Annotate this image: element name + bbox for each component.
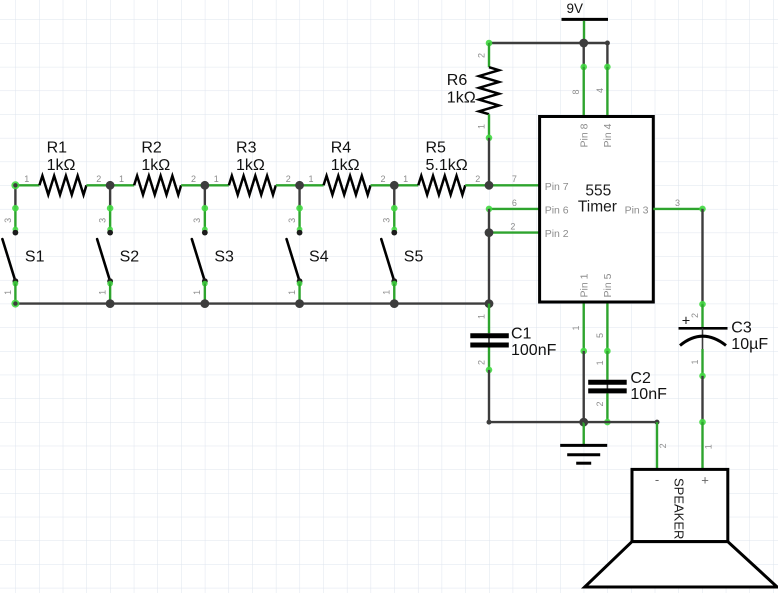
junction pin2 node [485, 228, 494, 237]
svg-text:R4: R4 [331, 140, 352, 157]
svg-text:Timer: Timer [578, 198, 617, 215]
wire S2 to bus [109, 284, 111, 304]
switch S4 lever [287, 239, 299, 279]
svg-text:2: 2 [658, 443, 668, 448]
ground symbol line 2 [567, 453, 600, 456]
svg-text:1: 1 [119, 174, 124, 184]
terminal glow S3 top [202, 227, 208, 233]
bendpoint S3 wire [202, 205, 209, 212]
svg-text:7: 7 [512, 174, 517, 184]
junction bus [390, 299, 399, 308]
capacitor C2 plate 1 [588, 380, 627, 385]
wire pin1 down [583, 302, 585, 351]
resistor R5 left lead [394, 184, 418, 186]
wire node to pin 7 [489, 184, 540, 186]
svg-text:5.1kΩ: 5.1kΩ [425, 157, 467, 174]
bendpoint pin5 [604, 348, 611, 355]
svg-text:1: 1 [308, 174, 313, 184]
terminal glow S1 top [13, 227, 19, 233]
wire S4 to bus [298, 284, 300, 304]
svg-text:1kΩ: 1kΩ [331, 157, 360, 174]
endpoint main row left [13, 183, 17, 187]
bendpoint C1 bottom [486, 367, 493, 374]
resistor R2 left lead [110, 184, 134, 186]
svg-text:S2: S2 [120, 248, 140, 265]
endpoint glow bus left [11, 300, 19, 308]
wire C2 to ground rail [606, 393, 608, 422]
bendpoint pin4 rail [605, 41, 610, 46]
svg-text:Pin 3: Pin 3 [625, 205, 649, 217]
resistor R4 right lead [371, 184, 395, 186]
svg-text:R3: R3 [236, 140, 257, 157]
switch S3 lever [192, 239, 204, 279]
wire to S2 top terminal [109, 208, 111, 229]
svg-text:R6: R6 [447, 72, 468, 89]
svg-text:Pin 1: Pin 1 [578, 273, 590, 297]
svg-text:Pin 4: Pin 4 [602, 123, 614, 147]
wire pin6 bend down to bus [488, 209, 490, 304]
svg-text:R5: R5 [425, 140, 446, 157]
resistor R3 left lead [205, 184, 229, 186]
svg-text:555: 555 [585, 183, 611, 200]
wire C3 to speaker bend [701, 376, 703, 422]
svg-text:1: 1 [690, 359, 700, 364]
capacitor C2 lead [606, 381, 608, 394]
op-amp U1 555 timer body [540, 117, 654, 303]
terminal glow S1 bottom [13, 281, 19, 287]
bendpoint pin4 [604, 64, 611, 71]
wire to speaker plus [701, 422, 703, 469]
wire pin6 [489, 208, 540, 210]
capacitor C1 lead [488, 334, 490, 347]
capacitor C2 plate 2 [588, 388, 627, 393]
terminal glow S5 bottom [391, 281, 397, 287]
wire main row down to S1 [14, 185, 16, 207]
switch S5 bottom terminal [391, 278, 397, 284]
wire pin4 bend to IC [606, 67, 608, 117]
capacitor C3 plate [679, 327, 728, 330]
svg-text:Pin 6: Pin 6 [545, 205, 569, 217]
svg-text:10µF: 10µF [731, 336, 768, 353]
terminal glow S2 top [107, 227, 113, 233]
svg-text:4: 4 [595, 88, 605, 93]
svg-text:1: 1 [704, 444, 714, 449]
svg-text:3: 3 [3, 218, 13, 223]
svg-text:2: 2 [191, 174, 196, 184]
terminal glow S3 bottom [202, 281, 208, 287]
svg-text:2: 2 [475, 174, 480, 184]
junction main row [106, 181, 115, 190]
terminal glow S4 top [297, 227, 303, 233]
junction main row [295, 181, 304, 190]
junction main row [200, 181, 209, 190]
wire S1 to bus [14, 284, 16, 304]
ground symbol line 3 [576, 462, 591, 465]
svg-text:1kΩ: 1kΩ [447, 89, 476, 106]
speaker body [632, 469, 728, 541]
svg-text:2: 2 [595, 401, 605, 406]
speaker cone [585, 542, 778, 587]
capacitor C1 plate 2 [470, 343, 509, 348]
junction 9V rail [579, 39, 588, 48]
bendpoint R6 bottom [486, 135, 493, 142]
wire pin3 bend down [701, 209, 703, 304]
terminal glow S2 bottom [107, 281, 113, 287]
switch S1 bottom terminal [13, 278, 19, 284]
wire main row down to S2 [109, 185, 111, 207]
junction main row [390, 181, 399, 190]
svg-text:C2: C2 [630, 370, 651, 387]
wire C3 bottom [701, 349, 703, 376]
svg-text:3: 3 [192, 218, 202, 223]
svg-text:Pin 2: Pin 2 [545, 228, 569, 240]
switch S4 top terminal [297, 230, 303, 236]
svg-text:Pin 7: Pin 7 [545, 181, 569, 193]
svg-text:8: 8 [571, 89, 581, 94]
wire main row down to S4 [298, 185, 300, 207]
bendpoint S4 wire [296, 205, 303, 212]
svg-text:9V: 9V [567, 1, 584, 16]
resistor R5 right lead [465, 184, 489, 186]
terminal glow S5 top [391, 227, 397, 233]
wire S3 to bus [204, 284, 206, 304]
bendpoint C1 ground corner [487, 420, 492, 425]
wire S5 to bus [393, 284, 395, 304]
wire rail to pin4 bend [606, 43, 608, 67]
resistor R1 right lead [86, 184, 110, 186]
svg-text:6: 6 [512, 198, 517, 208]
wire C1 down [488, 348, 490, 370]
wire pin5 down [606, 302, 608, 351]
svg-text:1: 1 [287, 290, 297, 295]
svg-text:1: 1 [382, 290, 392, 295]
bendpoint pin1 [580, 348, 587, 355]
capacitor C3 lead [702, 328, 704, 350]
wire pin8 bend to IC [583, 67, 585, 117]
wire ground node to speaker corner [584, 421, 657, 423]
svg-text:3: 3 [675, 198, 680, 208]
junction ground node [579, 418, 588, 427]
junction bus [200, 299, 209, 308]
bendpoint C3 bottom [699, 373, 706, 380]
switch S5 top terminal [391, 230, 397, 236]
terminal glow S4 bottom [297, 281, 303, 287]
bendpoint R6 top [486, 40, 493, 47]
wire to speaker minus [656, 422, 658, 469]
svg-text:1kΩ: 1kΩ [47, 157, 76, 174]
endpoint glow C2 bottom [604, 419, 611, 426]
svg-text:1: 1 [3, 290, 13, 295]
wire top rail node to pin4 column [584, 42, 608, 44]
switch S2 top terminal [107, 230, 113, 236]
svg-text:1: 1 [192, 290, 202, 295]
svg-text:1: 1 [476, 124, 486, 129]
bendpoint S2 wire [107, 205, 114, 212]
svg-text:-: - [655, 472, 659, 487]
svg-text:+: + [701, 473, 709, 488]
svg-text:1kΩ: 1kΩ [141, 157, 170, 174]
svg-text:10nF: 10nF [630, 386, 667, 403]
svg-text:S5: S5 [404, 248, 424, 265]
endpoint glow main row left [11, 181, 19, 189]
capacitor C1 plate 1 [470, 333, 509, 338]
wire to C3 plus plate [701, 304, 703, 327]
resistor R6 bottom lead [488, 114, 490, 138]
svg-text:1kΩ: 1kΩ [236, 157, 265, 174]
bendpoint pin3 [699, 206, 706, 213]
wire pin2 [489, 231, 540, 233]
wire ground node to ground symbol [583, 422, 585, 444]
junction bus [106, 299, 115, 308]
switch S5 lever [381, 239, 393, 279]
switch S3 top terminal [202, 230, 208, 236]
svg-text:2: 2 [96, 174, 101, 184]
wire R6 to pin7 node [488, 138, 490, 186]
svg-text:C1: C1 [511, 326, 532, 343]
bendpoint pin6 [486, 206, 493, 213]
svg-text:C3: C3 [731, 320, 752, 337]
bendpoint pin8 [580, 64, 587, 71]
resistor R6 top lead [488, 43, 490, 67]
wire rail to pin8 bend [583, 43, 585, 67]
svg-text:2: 2 [510, 222, 515, 232]
wire top rail R6 to node [489, 42, 584, 44]
junction bus [295, 299, 304, 308]
resistor R4 left lead [300, 184, 324, 186]
svg-text:1: 1 [571, 325, 581, 330]
svg-text:Pin 8: Pin 8 [578, 123, 590, 147]
wire bottom bus [15, 302, 489, 304]
wire pin3 [653, 208, 702, 210]
bendpoint S5 wire [391, 205, 398, 212]
bendpoint S1 wire [12, 205, 19, 212]
bendpoint speaker corner [655, 420, 660, 425]
svg-text:1: 1 [477, 314, 487, 319]
switch S2 lever [97, 239, 109, 279]
wire bus to C1 [488, 304, 490, 334]
capacitor C3 arc [680, 336, 726, 345]
resistor R4 body [324, 176, 371, 195]
svg-text:1: 1 [98, 290, 108, 295]
svg-text:3: 3 [98, 218, 108, 223]
junction bus C1 node [485, 299, 494, 308]
svg-text:1: 1 [403, 174, 408, 184]
wire pin1 bend to ground node [583, 351, 585, 422]
wire main row down to S3 [204, 185, 206, 207]
wire main row down to S5 [393, 185, 395, 207]
svg-text:5: 5 [595, 333, 605, 338]
svg-text:3: 3 [287, 218, 297, 223]
switch S1 lever [2, 239, 14, 279]
wire C1 to ground rail corner [488, 370, 490, 422]
junction pin7 node [485, 181, 494, 190]
svg-text:1: 1 [595, 360, 605, 365]
svg-text:2: 2 [690, 313, 700, 318]
svg-text:Pin 5: Pin 5 [602, 273, 614, 297]
svg-text:S3: S3 [214, 248, 234, 265]
resistor R2 right lead [181, 184, 205, 186]
svg-text:2: 2 [380, 174, 385, 184]
svg-text:S4: S4 [309, 248, 329, 265]
svg-text:2: 2 [286, 174, 291, 184]
endpoint bus left [13, 301, 17, 305]
svg-text:R2: R2 [141, 140, 162, 157]
svg-text:3: 3 [382, 218, 392, 223]
svg-text:R1: R1 [47, 140, 68, 157]
wire to S4 top terminal [298, 208, 300, 229]
resistor R2 body [134, 176, 181, 195]
switch S1 top terminal [13, 230, 19, 236]
switch S2 bottom terminal [107, 278, 113, 284]
wire 9V to top rail [583, 21, 585, 43]
resistor R6 body [479, 67, 499, 114]
svg-text:100nF: 100nF [511, 342, 557, 359]
bendpoint speaker plus [699, 419, 706, 426]
svg-text:1: 1 [24, 174, 29, 184]
svg-text:SPEAKER: SPEAKER [672, 478, 687, 539]
switch S4 bottom terminal [297, 278, 303, 284]
resistor R1 body [39, 176, 86, 195]
resistor R5 body [418, 176, 465, 195]
resistor R3 right lead [276, 184, 300, 186]
wire to S3 top terminal [204, 208, 206, 229]
svg-text:2: 2 [476, 53, 486, 58]
wire C1 corner to ground node [489, 421, 584, 423]
bendpoint C3 top [699, 301, 706, 308]
wire to S5 top terminal [393, 208, 395, 229]
svg-text:2: 2 [477, 360, 487, 365]
svg-text:1: 1 [214, 174, 219, 184]
wire to S1 top terminal [14, 208, 16, 229]
ground symbol line 1 [560, 444, 607, 447]
resistor R1 left lead [15, 184, 39, 186]
resistor R3 body [229, 176, 276, 195]
wire pin5 to C2 [606, 351, 608, 380]
svg-text:S1: S1 [25, 248, 45, 265]
power symbol 9V bar [562, 18, 609, 21]
switch S3 bottom terminal [202, 278, 208, 284]
